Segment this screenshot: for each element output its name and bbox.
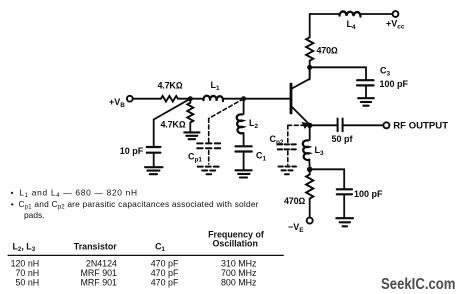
wire L3 to node <box>308 160 311 167</box>
svg-text:+VB: +VB <box>109 97 125 109</box>
svg-text:Cp1: Cp1 <box>188 152 202 164</box>
capacitor Cp1 plates <box>197 143 220 148</box>
svg-text:2N4124: 2N4124 <box>86 258 117 268</box>
wire resistor to -VE <box>309 199 311 218</box>
svg-text:4.7KΩ: 4.7KΩ <box>161 120 186 130</box>
wire dashed Cp1 bottom lead <box>208 151 210 165</box>
wire 100pF to ground <box>343 194 345 217</box>
wire C3 to ground <box>365 85 367 97</box>
svg-text:470 pF: 470 pF <box>151 258 179 268</box>
wire junction1 down <box>189 99 191 103</box>
ground below C3 <box>358 98 374 106</box>
table row 1 <box>11 258 257 287</box>
ground below 100pF <box>336 218 353 226</box>
svg-text:70 nH: 70 nH <box>16 268 40 278</box>
svg-text:C3: C3 <box>380 66 391 78</box>
node junction1 <box>188 96 193 101</box>
svg-text:•: • <box>11 199 14 209</box>
wire emitter to L3 <box>309 125 311 140</box>
node collector junction <box>307 65 312 70</box>
svg-text:700 MHz: 700 MHz <box>221 268 257 278</box>
inductor L4 <box>340 11 361 16</box>
node junction2 <box>241 96 246 101</box>
svg-text:50 nH: 50 nH <box>16 278 40 288</box>
wire dashed emitter node to Cp2 <box>288 124 303 126</box>
svg-text:470 pF: 470 pF <box>151 278 179 288</box>
svg-text:L3: L3 <box>315 145 325 157</box>
inductor L3 <box>303 140 310 160</box>
transistor Q1 collector lead <box>291 69 310 89</box>
svg-text:Transistor: Transistor <box>74 241 117 251</box>
svg-text:L2, L3: L2, L3 <box>13 241 36 253</box>
svg-text:L1 and L4 — 680 — 820 nH: L1 and L4 — 680 — 820 nH <box>19 188 138 200</box>
ground below Cp2 (dashed) <box>279 167 297 175</box>
svg-text:470Ω: 470Ω <box>317 46 338 56</box>
inductor L2 <box>237 114 244 133</box>
capacitor Cp1 dashed <box>209 99 244 164</box>
svg-text:L1: L1 <box>211 80 221 92</box>
ground below 10pF <box>145 167 162 174</box>
svg-text:RF OUTPUT: RF OUTPUT <box>393 120 448 131</box>
svg-text:310 MHz: 310 MHz <box>221 258 257 268</box>
svg-text:C1: C1 <box>155 242 165 254</box>
svg-text:800 MHz: 800 MHz <box>221 278 257 288</box>
svg-text:C1: C1 <box>256 151 267 163</box>
svg-text:pads.: pads. <box>24 210 45 220</box>
capacitor Cp2 plates <box>278 144 296 149</box>
svg-text:50 pf: 50 pf <box>332 134 354 144</box>
wire collector node to C3 <box>310 67 366 79</box>
svg-text:470 pF: 470 pF <box>151 268 179 278</box>
resistor 470 ohm top <box>306 37 313 60</box>
svg-text:4.7KΩ: 4.7KΩ <box>158 81 183 91</box>
svg-text:100 pF: 100 pF <box>380 79 409 89</box>
wire dashed Cp1 top lead <box>208 119 210 142</box>
svg-text:120 nH: 120 nH <box>11 258 40 268</box>
ground below C1 <box>236 170 252 177</box>
svg-text:L4: L4 <box>347 19 357 31</box>
transistor Q1 base bar <box>290 84 293 113</box>
wire L2 to C1 <box>243 133 245 145</box>
transistor Q1 emitter arrow <box>302 122 309 128</box>
wire diagonal to 10pF <box>154 99 191 147</box>
svg-text:•: • <box>11 188 14 198</box>
svg-text:100 pF: 100 pF <box>354 189 383 199</box>
transistor Q1 (NPN) <box>291 69 310 128</box>
wire resistor to collector node <box>309 61 311 78</box>
capacitor 50pf <box>338 119 343 132</box>
wire vcc drop <box>309 14 311 38</box>
resistor 4.7K vertical <box>187 103 193 123</box>
svg-text:−VE: −VE <box>288 222 304 234</box>
svg-text:MRF 901: MRF 901 <box>81 278 118 288</box>
wire dashed diagonal node B to Cp1 <box>209 99 244 119</box>
wire 50pf to RF output <box>343 124 384 126</box>
svg-text:Cp1 and Cp2 are parasitic capa: Cp1 and Cp2 are parasitic capacitances a… <box>19 199 259 211</box>
node L3 bottom junction <box>307 167 313 173</box>
wire node to 100pF <box>310 169 345 188</box>
wire resistor to ground <box>189 123 191 132</box>
svg-text:L2: L2 <box>249 118 259 130</box>
node emitter junction <box>307 123 312 128</box>
capacitor 10pF <box>147 147 161 153</box>
wire top rail to +Vcc <box>310 13 393 15</box>
svg-text:SeekIC.com: SeekIC.com <box>381 276 456 293</box>
terminal +Vcc <box>393 11 399 17</box>
svg-text:Oscillation: Oscillation <box>213 239 258 249</box>
wire junction2 to L2 <box>243 99 245 114</box>
svg-text:Cp2: Cp2 <box>270 134 284 146</box>
capacitor 100pF bottom <box>337 189 352 194</box>
table rule <box>8 254 284 256</box>
inductor L1 <box>203 96 223 101</box>
resistor 470 ohm bottom <box>306 172 313 199</box>
transistor Q1 emitter lead <box>291 106 310 125</box>
table <box>8 229 284 287</box>
svg-text:MRF 901: MRF 901 <box>81 268 118 278</box>
resistor 4.7K horizontal <box>161 96 178 102</box>
terminal -VE <box>307 218 313 224</box>
capacitor C3 <box>357 80 373 85</box>
note bullet 1 <box>11 188 259 220</box>
svg-text:10 pF: 10 pF <box>120 146 144 156</box>
wire 10pF to ground <box>153 153 155 167</box>
terminal RF output <box>383 122 389 128</box>
wire dashed Cp2 bottom lead <box>287 151 289 164</box>
wire base rail <box>133 98 291 100</box>
wire emitter to 50pf <box>310 124 337 126</box>
capacitor Cp2 dashed <box>288 125 303 164</box>
svg-text:470Ω: 470Ω <box>284 196 305 206</box>
svg-text:+Vcc: +Vcc <box>386 19 405 31</box>
wire dashed Cp2 top lead <box>287 125 289 142</box>
terminal +VB <box>127 96 133 102</box>
wire C1 to ground <box>243 152 245 170</box>
ground below Cp1 (dashed) <box>198 167 220 175</box>
capacitor C1 <box>236 146 252 151</box>
ground below 4.7K <box>184 132 199 139</box>
